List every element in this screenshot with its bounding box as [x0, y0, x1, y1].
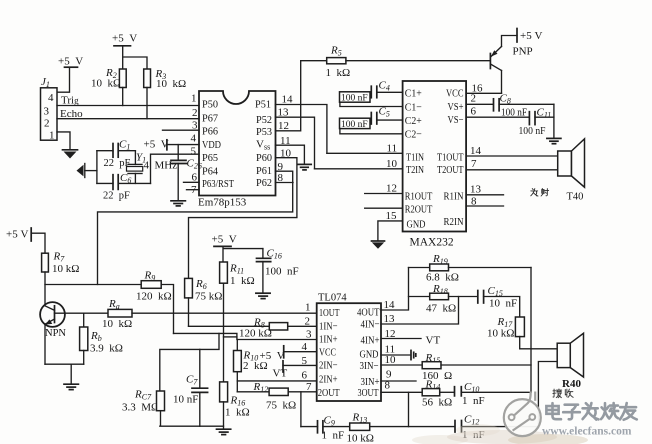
svg-text:14: 14 — [282, 94, 294, 106]
svg-text:12: 12 — [278, 120, 289, 132]
ground MAX232 — [372, 241, 385, 249]
resistor R3 10k — [144, 68, 186, 119]
svg-text:47 kΩ: 47 kΩ — [426, 303, 456, 315]
crystal Y1 4MHz — [127, 151, 178, 184]
svg-text:P63/RST: P63/RST — [202, 178, 234, 190]
pin 11 Vss wire — [276, 135, 305, 164]
svg-text:10 kΩ: 10 kΩ — [91, 78, 121, 90]
capacitor C16 100nF — [257, 248, 299, 294]
pin 14 P51 wire to T1IN — [276, 94, 327, 154]
capacitor C9 1nF — [301, 415, 350, 442]
ground Vss — [298, 164, 312, 170]
svg-text:6.8 kΩ: 6.8 kΩ — [426, 272, 459, 284]
svg-text:4IN−: 4IN− — [361, 319, 380, 331]
svg-text:www.elecfans.com: www.elecfans.com — [542, 426, 632, 438]
resistor R19 6.8k — [409, 253, 532, 284]
svg-text:C1−: C1− — [405, 102, 422, 114]
pin 7 2OUT with resistor R12 75k — [237, 381, 316, 412]
capacitor C10 1nF — [455, 381, 532, 407]
resistor RC7 3.3M — [122, 389, 165, 414]
pin 12 4IN+ VT — [381, 328, 440, 347]
svg-text:C2−: C2− — [405, 129, 422, 141]
svg-text:P66: P66 — [202, 126, 218, 138]
power +5V NPN — [6, 228, 45, 253]
svg-text:C1: C1 — [119, 139, 130, 152]
pin 10 P60 wire to R6 — [189, 148, 297, 279]
svg-text:10 nF: 10 nF — [489, 298, 517, 310]
op MCU U1 Em78p153 — [198, 91, 276, 209]
svg-text:2 kΩ: 2 kΩ — [243, 360, 268, 372]
svg-text:VS−: VS− — [448, 114, 464, 126]
wire emitter rail — [45, 364, 84, 384]
svg-text:C9: C9 — [324, 415, 335, 428]
resistor R17 10k — [487, 316, 531, 349]
svg-text:C2+: C2+ — [405, 115, 422, 127]
capacitor C12 1nF — [455, 414, 538, 442]
svg-text:12: 12 — [386, 183, 397, 195]
pin 16 VCC — [466, 83, 501, 95]
svg-text:P61: P61 — [256, 165, 272, 177]
svg-text:R40: R40 — [562, 378, 581, 390]
speaker R40 (receive) — [531, 333, 584, 426]
svg-text:+5 V: +5 V — [6, 229, 28, 241]
capacitor C1 22pF — [97, 139, 135, 170]
svg-text:100 nF: 100 nF — [265, 266, 299, 278]
svg-text:100 nF: 100 nF — [341, 120, 368, 130]
pin 8 R2IN stub — [466, 196, 503, 208]
svg-text:P60: P60 — [256, 152, 272, 164]
svg-text:Vss: Vss — [256, 139, 270, 152]
pin 13 P52 wire to T2IN — [276, 107, 315, 169]
capacitor C15 10nF — [478, 285, 520, 317]
svg-text:14: 14 — [470, 145, 482, 157]
svg-text:1IN+: 1IN+ — [319, 334, 338, 346]
svg-text:75 kΩ: 75 kΩ — [266, 400, 296, 412]
svg-text:VCC: VCC — [446, 88, 464, 100]
svg-text:15: 15 — [386, 210, 398, 222]
svg-text:P52: P52 — [256, 114, 272, 126]
svg-text:PNP: PNP — [513, 46, 533, 58]
resistor R7 10k — [42, 251, 80, 306]
svg-text:10 kΩ: 10 kΩ — [102, 318, 132, 330]
svg-text:2: 2 — [471, 93, 477, 105]
svg-text:C5: C5 — [379, 106, 390, 119]
transistor Q1 PNP — [490, 46, 532, 94]
pin 13 4IN- — [381, 297, 459, 326]
svg-text:4: 4 — [48, 92, 54, 104]
resistor R10 2k — [234, 340, 268, 392]
pin 15 GND — [378, 210, 403, 241]
svg-text:R2IN: R2IN — [444, 216, 464, 228]
pin 14 4OUT — [381, 268, 409, 312]
svg-text:TL074: TL074 — [318, 293, 347, 304]
svg-text:P64: P64 — [202, 166, 218, 178]
svg-text:10 nF: 10 nF — [173, 394, 198, 406]
wire Echo net — [57, 108, 199, 120]
op TL074 U3 — [317, 293, 381, 402]
svg-text:1IN−: 1IN− — [319, 321, 338, 333]
svg-text:1OUT: 1OUT — [319, 307, 340, 319]
power +5V J1 — [57, 56, 83, 93]
svg-text:C7: C7 — [186, 374, 198, 387]
svg-text:RC7: RC7 — [134, 389, 152, 402]
svg-text:120 kΩ: 120 kΩ — [136, 291, 172, 303]
svg-text:1 nF: 1 nF — [462, 395, 485, 407]
svg-text:3IN+: 3IN+ — [361, 376, 380, 388]
svg-text:VDD: VDD — [202, 139, 221, 151]
svg-text:56 kΩ: 56 kΩ — [422, 397, 452, 409]
watermark stain — [412, 424, 588, 444]
svg-text:Em78p153: Em78p153 — [198, 197, 247, 209]
label 发射 (transmit) — [0, 0, 1, 1]
svg-text:+5 V: +5 V — [144, 139, 169, 151]
filter box frame — [160, 333, 224, 426]
wire 1IN- row — [189, 325, 270, 327]
resistor Ra 10k — [102, 298, 132, 330]
label 发射 transmit — [531, 189, 549, 197]
svg-text:13: 13 — [384, 313, 396, 325]
op MAX232 U2 — [403, 81, 467, 249]
wire 3OUT to bottom row — [408, 392, 410, 426]
pin 10 3IN- with resistor R15 160 — [381, 352, 531, 382]
ground C26 — [171, 201, 185, 206]
power +5V R11 — [212, 234, 263, 263]
svg-text:4 MHz: 4 MHz — [144, 160, 178, 172]
svg-text:10: 10 — [385, 354, 397, 366]
pin 6 P63/RST stub — [184, 172, 200, 184]
svg-text:10 kΩ: 10 kΩ — [347, 433, 374, 444]
svg-text:+5 V: +5 V — [58, 56, 83, 68]
pin 13 R1IN stub — [466, 184, 503, 196]
capacitor C5 100nF — [340, 106, 403, 134]
svg-text:75 kΩ: 75 kΩ — [195, 291, 222, 303]
wire R10 tap — [224, 336, 237, 338]
wire collector rail — [45, 284, 141, 286]
svg-text:13: 13 — [470, 184, 482, 196]
pin 12 P53 wire to R5 — [276, 61, 301, 132]
svg-text:1 kΩ: 1 kΩ — [326, 67, 351, 79]
pin 9 3IN+ stub — [381, 369, 416, 382]
svg-text:P53: P53 — [256, 126, 272, 138]
svg-text:T1IN: T1IN — [406, 152, 424, 164]
resistor Rb 3.9k — [80, 313, 123, 364]
capacitor C6 22pF — [97, 172, 151, 201]
svg-text:GND: GND — [407, 219, 426, 231]
label 接收 receive — [553, 389, 573, 398]
resistor R18 47k — [409, 283, 478, 315]
capacitor C7 10nF — [173, 349, 208, 426]
svg-text:1: 1 — [49, 130, 55, 142]
svg-text:4: 4 — [191, 133, 197, 145]
svg-text:R6: R6 — [195, 278, 207, 291]
svg-text:10 kΩ: 10 kΩ — [156, 78, 186, 90]
svg-text:C4: C4 — [379, 80, 390, 93]
svg-text:Trig: Trig — [61, 95, 79, 107]
svg-text:7: 7 — [471, 158, 477, 170]
svg-text:NPN: NPN — [45, 328, 66, 339]
svg-text:2IN−: 2IN− — [319, 360, 338, 372]
svg-text:T2OUT: T2OUT — [437, 164, 464, 176]
svg-text:P51: P51 — [255, 99, 271, 111]
pin 7 T2OUT — [466, 158, 558, 170]
svg-text:T1OUT: T1OUT — [437, 152, 464, 164]
svg-text:R7: R7 — [53, 251, 66, 264]
svg-text:VCC: VCC — [319, 347, 336, 359]
svg-text:14: 14 — [384, 299, 396, 311]
wire R2OUT stub — [365, 207, 403, 209]
svg-text:T40: T40 — [567, 192, 584, 203]
svg-text:4OUT: 4OUT — [357, 307, 380, 319]
pin 12 R1OUT stub — [365, 183, 403, 195]
pin 9 P61 wire to collector rail — [98, 161, 293, 285]
svg-text:2: 2 — [192, 107, 198, 119]
resistor R13 10k — [347, 412, 455, 444]
svg-text:R11: R11 — [229, 263, 244, 276]
power +5V VDD — [144, 139, 200, 151]
svg-text:C1+: C1+ — [405, 88, 422, 100]
wire crystal right rail to P65 — [151, 154, 200, 183]
svg-text:C8: C8 — [500, 93, 511, 106]
ground C16 — [256, 293, 270, 298]
pin 5 VT input — [273, 355, 317, 380]
svg-text:P67: P67 — [202, 113, 218, 125]
wire Trig net — [57, 95, 199, 107]
svg-text:3: 3 — [44, 106, 50, 118]
svg-text:22 pF: 22 pF — [103, 190, 130, 201]
resistor R2 10k — [91, 67, 126, 106]
svg-text:VS+: VS+ — [448, 101, 464, 113]
svg-text:P50: P50 — [202, 99, 218, 111]
pin 14 T1OUT — [466, 145, 558, 157]
svg-text:5: 5 — [191, 146, 197, 158]
pin 6 VS- with capacitor C11 — [466, 104, 554, 138]
svg-text:MAX232: MAX232 — [410, 237, 454, 249]
svg-text:6: 6 — [302, 370, 308, 382]
svg-text:VT: VT — [426, 335, 441, 347]
svg-text:3.9 kΩ: 3.9 kΩ — [90, 343, 123, 355]
resistor R11 1k — [220, 262, 255, 382]
wire C9 tap from 2OUT — [300, 392, 302, 427]
svg-text:1: 1 — [305, 302, 311, 314]
svg-text:1 kΩ: 1 kΩ — [230, 275, 255, 287]
resistor R6 75k — [185, 278, 223, 326]
svg-text:3: 3 — [306, 329, 312, 341]
svg-text:6: 6 — [471, 106, 477, 118]
svg-text:8: 8 — [385, 380, 391, 392]
svg-text:GND: GND — [360, 349, 379, 361]
watermark logo elecfans — [504, 392, 541, 437]
pin 11 T1IN — [327, 143, 403, 155]
pin 8 3OUT with resistor R14 56k — [381, 379, 454, 409]
svg-text:P65: P65 — [202, 152, 218, 164]
svg-text:2: 2 — [44, 118, 50, 130]
watermark text 电子发烧友 — [546, 403, 636, 420]
pin 8 P62 stub — [276, 172, 294, 184]
wire 1IN+ path from R9 — [174, 333, 317, 339]
svg-text:+5 V: +5 V — [212, 234, 237, 246]
svg-text:1: 1 — [191, 93, 197, 105]
svg-text:4IN+: 4IN+ — [361, 335, 380, 347]
svg-text:R1OUT: R1OUT — [405, 191, 433, 203]
ground crystal (left arrow style) — [77, 164, 97, 178]
wire 1OUT row — [132, 312, 317, 314]
svg-text:R5: R5 — [330, 45, 342, 58]
speaker T40 (transmit) — [558, 139, 585, 187]
pin 6 label — [237, 370, 316, 382]
svg-text:T2IN: T2IN — [406, 164, 424, 176]
resistor R9 120k — [136, 270, 174, 334]
svg-text:+5 V: +5 V — [520, 30, 542, 42]
svg-text:2: 2 — [305, 316, 311, 328]
wire receive bus vertical — [530, 268, 532, 393]
svg-text:1 nF: 1 nF — [322, 430, 345, 442]
pin 4 VCC +5V — [260, 341, 317, 362]
resistor R8 120k — [239, 317, 317, 340]
svg-text:3OUT: 3OUT — [358, 387, 379, 399]
resistor R5 1k — [301, 45, 491, 80]
pin 11 GND — [381, 344, 416, 360]
svg-text:1 kΩ: 1 kΩ — [225, 407, 250, 419]
svg-text:P62: P62 — [256, 177, 272, 189]
pin 10 T2IN — [315, 158, 403, 170]
svg-text:100 nF: 100 nF — [341, 94, 368, 104]
ground R16 — [217, 429, 231, 434]
crystal network left rail — [96, 151, 98, 184]
svg-text:120 kΩ: 120 kΩ — [239, 327, 272, 339]
power +5V pullups — [112, 33, 147, 70]
power +5V PNP — [502, 29, 543, 47]
svg-text:R2OUT: R2OUT — [405, 204, 433, 216]
resistor R16 1k — [220, 382, 250, 429]
label 接收 (receive) — [0, 0, 1, 1]
svg-text:R1IN: R1IN — [444, 191, 464, 203]
pin 3 P66 stub — [163, 120, 200, 132]
ground C8 C11 rail — [547, 138, 561, 143]
pin 2 VS+ with capacitor C8 — [466, 93, 554, 119]
svg-text:+5 V: +5 V — [260, 350, 285, 362]
svg-text:VT: VT — [273, 368, 288, 380]
ground J1 pin1 — [57, 132, 78, 159]
svg-text:10 kΩ: 10 kΩ — [487, 328, 514, 340]
svg-text:2IN+: 2IN+ — [319, 374, 338, 386]
pin 7 stub — [187, 184, 200, 196]
svg-text:10 kΩ: 10 kΩ — [52, 263, 79, 275]
transistor Q2 NPN — [40, 302, 108, 364]
svg-text:Rb: Rb — [90, 330, 102, 343]
svg-text:100 nF: 100 nF — [519, 126, 546, 137]
svg-text:+5 V: +5 V — [112, 33, 137, 45]
connector J1 — [41, 76, 58, 142]
svg-text:3.3 MΩ: 3.3 MΩ — [122, 402, 159, 414]
capacitor C4 100nF — [340, 80, 403, 107]
capacitor C26 — [171, 145, 202, 201]
ground emitter — [64, 384, 78, 389]
svg-text:3IN−: 3IN− — [360, 360, 379, 372]
svg-text:2OUT: 2OUT — [318, 387, 340, 399]
